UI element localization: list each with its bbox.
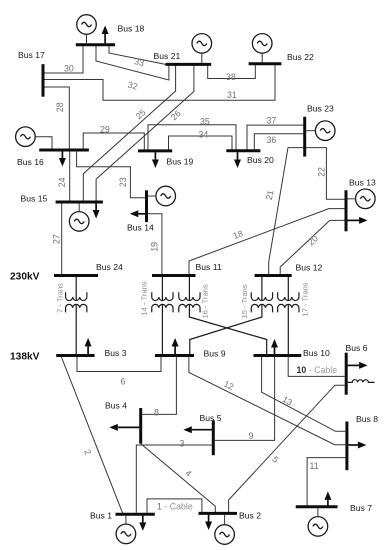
bus bar Bus 1 bbox=[116, 513, 155, 516]
bus bar Bus 7 bbox=[296, 505, 338, 508]
svg-text:138kV: 138kV bbox=[10, 352, 40, 363]
svg-text:22: 22 bbox=[317, 167, 327, 177]
svg-text:Bus 14: Bus 14 bbox=[127, 223, 154, 233]
bus bar Bus 22 bbox=[249, 62, 282, 65]
bus bar Bus 12 bbox=[255, 274, 292, 277]
bus bar Bus 13 bbox=[345, 190, 348, 231]
svg-text:Bus 11: Bus 11 bbox=[196, 262, 222, 272]
wire line 13 (8-10) bbox=[262, 357, 346, 431]
svg-text:11: 11 bbox=[310, 461, 319, 471]
svg-text:28: 28 bbox=[55, 102, 65, 112]
wire line 8 (4-9) bbox=[141, 357, 177, 414]
bus bar Bus 8 bbox=[345, 422, 348, 471]
generator G23 bbox=[306, 121, 335, 141]
svg-text:27: 27 bbox=[51, 234, 61, 244]
svg-text:23: 23 bbox=[118, 177, 128, 187]
load arrow Bus 8 (right) bbox=[348, 442, 366, 449]
load arrow Bus 6 (right) bbox=[348, 362, 368, 369]
bus bar Bus 9 bbox=[155, 354, 194, 357]
svg-text:Bus 20: Bus 20 bbox=[247, 155, 274, 165]
svg-text:24: 24 bbox=[57, 177, 67, 187]
generator G14 bbox=[148, 186, 176, 206]
load arrow Bus 3 (up) bbox=[85, 338, 92, 354]
transformer T17 (10-12) bbox=[278, 277, 299, 354]
load arrow Bus 2 (down) bbox=[205, 515, 212, 530]
load arrow Bus 20 (down) bbox=[234, 152, 241, 168]
wire line 26 (15-21) bbox=[96, 66, 194, 202]
load arrow Bus 14 (left) bbox=[130, 210, 145, 217]
svg-text:6: 6 bbox=[121, 376, 126, 386]
svg-text:10 - Cable: 10 - Cable bbox=[297, 365, 338, 375]
svg-text:Bus 24: Bus 24 bbox=[96, 262, 123, 272]
wire line 1 cable (1-2) bbox=[147, 499, 202, 513]
load arrow Bus 18 (up) bbox=[102, 26, 109, 44]
svg-text:16 - Trans: 16 - Trans bbox=[201, 284, 210, 318]
generator G2 bbox=[215, 515, 235, 545]
svg-text:Bus 1: Bus 1 bbox=[90, 511, 112, 521]
svg-text:19: 19 bbox=[150, 242, 160, 252]
svg-text:7 - Trans: 7 - Trans bbox=[55, 283, 64, 313]
wire line 23 (14-16) bbox=[77, 151, 146, 197]
load arrow Bus 10 (up) bbox=[271, 339, 278, 354]
bus bar Bus 18 bbox=[76, 43, 115, 46]
svg-text:29: 29 bbox=[100, 125, 110, 135]
wire generator lead Bus 16 bbox=[35, 137, 52, 149]
bus bar Bus 14 bbox=[145, 190, 148, 222]
load arrow Bus 19 (down) bbox=[152, 152, 159, 168]
wire line 32 (18-21) bbox=[96, 46, 169, 81]
svg-text:230kV: 230kV bbox=[10, 272, 40, 283]
generator G1 bbox=[116, 516, 136, 544]
svg-text:Bus 6: Bus 6 bbox=[346, 343, 368, 353]
svg-text:Bus 22: Bus 22 bbox=[287, 52, 314, 62]
svg-text:Bus 17: Bus 17 bbox=[18, 50, 45, 60]
wire line 27 (15-24) bbox=[61, 203, 63, 274]
wire line 18 (11-13) bbox=[189, 209, 345, 275]
reactor at Bus 6 bbox=[348, 380, 375, 383]
load arrow Bus 15 (down) bbox=[93, 203, 100, 218]
svg-text:Bus 13: Bus 13 bbox=[349, 178, 376, 188]
wire line 9 (5-10) bbox=[215, 357, 275, 440]
svg-text:Bus 5: Bus 5 bbox=[200, 413, 222, 423]
svg-text:35: 35 bbox=[200, 116, 210, 126]
generator G15 bbox=[69, 203, 89, 231]
svg-text:37: 37 bbox=[267, 116, 277, 126]
svg-text:9: 9 bbox=[249, 431, 254, 441]
bus bar Bus 6 bbox=[345, 353, 348, 395]
generator G13 bbox=[347, 189, 375, 209]
wire line 34 (19-20) bbox=[169, 136, 233, 150]
transformer T7 (3-24) bbox=[66, 277, 87, 354]
svg-text:31: 31 bbox=[227, 90, 237, 100]
svg-text:Bus 2: Bus 2 bbox=[239, 511, 261, 521]
load arrow Bus 13 (right) bbox=[347, 217, 367, 224]
wire line 11 (7-8) bbox=[307, 458, 345, 506]
wire line 2 (1-3) bbox=[61, 357, 122, 513]
bus bar Bus 20 bbox=[226, 149, 260, 152]
svg-text:36: 36 bbox=[267, 135, 277, 145]
load arrow Bus 7 (up) bbox=[324, 491, 331, 505]
generator G21 bbox=[192, 34, 212, 63]
svg-text:Bus 12: Bus 12 bbox=[296, 263, 323, 273]
svg-text:Bus 4: Bus 4 bbox=[105, 401, 127, 411]
load arrow Bus 4 (left) bbox=[109, 424, 139, 431]
bus bar Bus 10 bbox=[254, 354, 302, 357]
wire line 10 cable (6-10) bbox=[288, 357, 345, 376]
svg-text:38: 38 bbox=[226, 72, 236, 82]
wire line 24 (15-16) bbox=[69, 151, 71, 201]
transformer T14 (9-11) bbox=[152, 277, 173, 354]
wire line 29 (16-19) bbox=[83, 133, 144, 150]
svg-text:Bus 21: Bus 21 bbox=[154, 51, 181, 61]
svg-text:Bus 18: Bus 18 bbox=[118, 24, 145, 34]
svg-text:Bus 23: Bus 23 bbox=[307, 104, 334, 114]
wire line 33 (18-21) bbox=[109, 46, 166, 65]
wire line 20 (12-13) bbox=[280, 220, 345, 274]
bus bar Bus 11 bbox=[152, 274, 196, 277]
bus bar Bus 15 bbox=[56, 201, 103, 204]
generator G16 bbox=[16, 127, 36, 147]
svg-text:15 - Trans: 15 - Trans bbox=[240, 284, 249, 318]
svg-text:Bus 8: Bus 8 bbox=[356, 414, 378, 424]
bus bar Bus 16 bbox=[39, 149, 89, 152]
bus bar Bus 21 bbox=[166, 63, 212, 66]
svg-text:Bus 3: Bus 3 bbox=[105, 348, 127, 358]
wire line 37 (20-23) bbox=[247, 125, 303, 149]
wire line 5 (2-6) bbox=[229, 385, 345, 512]
bus bar Bus 5 bbox=[212, 420, 215, 455]
svg-text:Bus 15: Bus 15 bbox=[21, 194, 48, 204]
svg-text:Bus 16: Bus 16 bbox=[17, 157, 44, 167]
bus bar Bus 23 bbox=[303, 117, 306, 157]
bus bar Bus 3 bbox=[56, 354, 94, 357]
svg-text:Bus 19: Bus 19 bbox=[167, 157, 194, 167]
svg-text:30: 30 bbox=[64, 64, 74, 74]
generator G18 bbox=[77, 15, 97, 44]
wire line 31 (17-22) bbox=[43, 65, 275, 101]
wire line 6 (3-9) bbox=[77, 357, 161, 372]
wire line 22 (13-23) bbox=[306, 148, 345, 200]
svg-text:14 - Trans: 14 - Trans bbox=[140, 281, 149, 315]
load arrow Bus 16 (down) bbox=[59, 151, 66, 166]
svg-text:Bus 9: Bus 9 bbox=[204, 349, 226, 359]
bus bar Bus 2 bbox=[199, 512, 238, 515]
generator G7 bbox=[308, 508, 328, 536]
wire line 19 (11-14) bbox=[148, 214, 162, 274]
bus bar Bus 19 bbox=[138, 149, 172, 152]
svg-text:17 - Trans: 17 - Trans bbox=[301, 282, 310, 316]
wire line 12 (8-9) bbox=[189, 357, 345, 445]
wire line 4 (2-4) bbox=[141, 444, 216, 512]
wire line 35 (19-20) bbox=[148, 125, 236, 150]
load arrow Bus 5 (left) bbox=[183, 426, 212, 433]
svg-text:34: 34 bbox=[199, 130, 209, 140]
load arrow Bus 1 (down) bbox=[139, 516, 146, 531]
wire line 30 (17-18) bbox=[43, 45, 83, 73]
svg-text:3: 3 bbox=[180, 439, 185, 449]
transformer T15 (9-12) bbox=[190, 277, 273, 354]
bus bar Bus 24 bbox=[54, 274, 98, 277]
svg-text:Bus 7: Bus 7 bbox=[350, 503, 372, 513]
load arrow Bus 9 (up) bbox=[172, 338, 179, 354]
bus bar Bus 4 bbox=[139, 408, 142, 444]
wire line 38 (21-22) bbox=[208, 65, 256, 79]
wire line 21 (12-23) bbox=[269, 148, 304, 275]
svg-text:Bus 10: Bus 10 bbox=[303, 348, 330, 358]
wire line 28 (16-17) bbox=[43, 87, 69, 149]
wire line 3 (1-5) bbox=[136, 445, 211, 513]
transformer T16 (10-11) bbox=[179, 277, 267, 354]
svg-text:8: 8 bbox=[154, 407, 159, 417]
bus bar Bus 17 bbox=[42, 64, 45, 97]
wire line 36 (20-23) bbox=[254, 134, 303, 150]
generator G22 bbox=[252, 34, 272, 63]
svg-text:1 - Cable: 1 - Cable bbox=[157, 502, 193, 512]
wire line 25 (15-21) bbox=[83, 66, 175, 202]
